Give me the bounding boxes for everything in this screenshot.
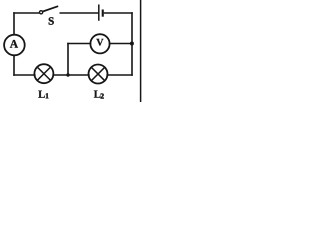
wire left lower <box>13 55 15 75</box>
lamp L2 cross <box>91 67 104 80</box>
lamp L1 cross <box>37 67 50 80</box>
switch S lever <box>43 7 57 12</box>
node junction bottom <box>66 73 69 76</box>
wire top right <box>105 12 133 14</box>
node junction right <box>130 42 134 46</box>
label A <box>10 40 18 48</box>
label L2 subscript <box>101 93 104 98</box>
label L1 letter <box>38 91 45 98</box>
lamp L2 circle <box>89 65 108 84</box>
wire bottom right <box>107 74 132 76</box>
wire right side <box>131 13 133 75</box>
ammeter A1 circle <box>4 35 25 56</box>
label V <box>96 39 103 46</box>
battery short plate <box>102 10 104 17</box>
wire voltmeter branch left <box>68 43 90 45</box>
switch S pivot <box>40 11 43 14</box>
label L1 subscript <box>46 93 49 98</box>
wire top-left segment <box>14 12 39 14</box>
label S <box>49 17 54 24</box>
label L2 letter <box>94 90 101 97</box>
wire top middle <box>60 12 98 14</box>
voltmeter V1 circle <box>90 34 109 53</box>
battery long plate <box>98 5 100 20</box>
wire left side <box>13 13 15 35</box>
wire bottom left <box>14 74 35 76</box>
page border right <box>140 0 142 102</box>
wire voltmeter branch right <box>110 43 132 45</box>
wire voltmeter branch vertical <box>67 44 69 76</box>
wire bottom middle <box>53 74 89 76</box>
lamp L1 circle <box>34 64 53 83</box>
